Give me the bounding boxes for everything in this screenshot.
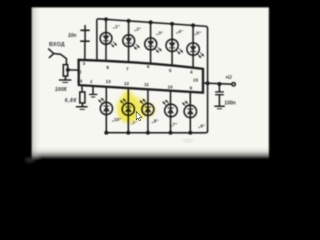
terminal +U (232, 83, 235, 86)
svg-text:5: 5 (169, 68, 172, 73)
svg-text:„6“: „6“ (198, 123, 205, 128)
LED VD1 (100, 19, 116, 61)
svg-text:12: 12 (124, 81, 130, 86)
svg-text:9: 9 (190, 86, 193, 91)
svg-text:3: 3 (83, 61, 86, 66)
svg-text:11: 11 (144, 82, 149, 87)
svg-text:100К: 100К (55, 87, 68, 93)
highlight (117, 90, 156, 123)
node bottom rail VD9 (127, 132, 129, 134)
wire R1 to ground (64, 76, 66, 80)
node bottom rail VD8 (147, 132, 149, 134)
wire top rail (99, 19, 208, 29)
svg-text:2: 2 (79, 69, 82, 74)
svg-text:10n: 10n (68, 33, 77, 39)
svg-text:100n: 100n (224, 100, 235, 106)
ground below C2 (215, 106, 224, 109)
wire pin2 from R1 (68, 69, 79, 71)
svg-text:1: 1 (90, 79, 93, 84)
svg-text:6,8К: 6,8К (65, 98, 78, 104)
LED VD9 (121, 88, 135, 133)
capacitor C1 10n (81, 26, 89, 61)
ground below R1 (60, 80, 71, 83)
node bottom rail VD6 (189, 132, 191, 134)
wire rail left drop to pin top (97, 19, 99, 61)
LED VD10 (99, 87, 113, 133)
node on +U line at rail (206, 82, 209, 85)
svg-text:ВХОД: ВХОД (49, 42, 65, 48)
node bottom rail VD10 (105, 132, 107, 134)
LED VD4 (166, 24, 183, 66)
wire pin14 (81, 85, 83, 92)
svg-text:13: 13 (106, 79, 112, 84)
wire +U line (203, 83, 232, 84)
ground pin1 (90, 94, 97, 97)
svg-text:„8“: „8“ (151, 119, 158, 124)
svg-text:„9“: „9“ (130, 120, 137, 125)
svg-text:10: 10 (168, 84, 174, 89)
svg-text:7: 7 (126, 67, 129, 72)
node rail VD3 (149, 21, 151, 23)
LED VD6 (183, 92, 197, 133)
svg-text:14: 14 (77, 78, 83, 83)
svg-text:„1“: „1“ (113, 24, 120, 29)
cursor (136, 112, 142, 121)
op-amp U1 IC body (79, 60, 203, 93)
wire R2 to ground (81, 103, 83, 106)
svg-text:+U: +U (225, 75, 232, 81)
LED VD5 (187, 25, 204, 67)
svg-text:8: 8 (106, 65, 109, 70)
svg-text:„3“: „3“ (156, 30, 163, 35)
svg-text:4: 4 (190, 70, 193, 75)
wire right vertical rail to bottom (207, 29, 209, 131)
svg-text:15: 15 (193, 78, 199, 83)
LED VD7 (163, 91, 177, 133)
node at R1 pin2 (67, 69, 69, 71)
svg-text:„4“: „4“ (176, 29, 183, 34)
svg-text:„10“: „10“ (112, 117, 122, 122)
capacitor C2 100n (216, 84, 224, 106)
svg-text:6: 6 (147, 64, 150, 69)
resistor R2 6.8K (80, 92, 85, 103)
svg-text:„5“: „5“ (194, 31, 201, 36)
svg-text:„7“: „7“ (170, 122, 177, 127)
node rail VD4 (171, 23, 173, 25)
node rail VD2 (127, 20, 129, 22)
LED VD3 (145, 22, 162, 63)
LED VD2 (123, 21, 139, 62)
input connector X1 (49, 49, 67, 65)
wire pin1 stub (92, 86, 94, 94)
paper (32, 7, 269, 159)
node bottom rail VD7 (169, 132, 171, 134)
node on +U line at C2 (218, 83, 221, 86)
ground below R2 (76, 107, 87, 110)
node rail VD5 (192, 24, 194, 26)
LED VD8 (140, 89, 154, 132)
svg-text:„2“: „2“ (134, 26, 141, 31)
node rail VD1 (105, 18, 107, 20)
wire bottom rail (106, 131, 207, 133)
resistor R1 100K (63, 65, 67, 76)
